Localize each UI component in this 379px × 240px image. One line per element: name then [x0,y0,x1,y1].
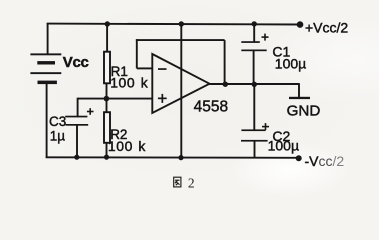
terminal -Vcc/2 [296,155,302,161]
node junction output feedback [223,82,228,87]
wire op-amp supply crossing [180,24,182,157]
svg-text:100k: 100k [108,138,147,154]
wire C1 bottom lead [253,50,255,84]
capacitor C3 [65,108,93,126]
capacitor C2 [241,123,269,141]
ground symbol [289,97,310,99]
node junction bottom supply [178,155,183,160]
battery B1 Vcc [30,53,61,84]
wire C1 top lead [253,24,255,42]
wire C3 bottom lead [76,125,78,157]
terminal +Vcc/2 [297,21,304,28]
svg-text:-Vcc/2: -Vcc/2 [305,153,345,169]
wire feedback left segment [136,39,138,68]
svg-text:4558: 4558 [194,98,228,115]
wire R1 bottom lead [106,83,108,99]
node junction top R1 [105,21,110,26]
wire battery positive lead [47,23,49,54]
node junction R1 R2 input [104,96,110,102]
svg-text:100µ: 100µ [268,137,299,153]
wire battery negative lead [46,84,48,158]
node junction bottom C3 [74,155,79,160]
svg-text:Vcc: Vcc [63,54,89,71]
node junction output C1 C2 [252,82,257,87]
node junction bottom R2 [104,155,109,160]
wire C2 bottom lead [254,141,256,158]
svg-text:C3: C3 [49,114,66,129]
wire R2 bottom lead [106,143,108,158]
caption figure 2 character tu [174,177,181,187]
capacitor C1 [241,34,268,52]
svg-text:1µ: 1µ [50,129,66,144]
wire op-amp output rail [210,83,300,85]
wire feedback right segment [224,40,226,84]
resistor R1 [104,52,110,84]
wire top supply rail [47,23,300,26]
svg-text:100µ: 100µ [275,55,306,71]
wire R2 top lead [106,99,108,113]
wire GND stub [298,83,300,98]
wire R1 top lead [106,24,108,52]
wire C2 top lead [253,84,255,130]
node junction top C1 [252,21,257,26]
node junction top supply [179,21,184,26]
wire bottom rail [46,156,299,159]
op-amp U1 4558 [152,54,209,113]
op-amp inverting symbol [158,68,167,70]
wire C3 top lead [77,98,79,118]
svg-text:+Vcc/2: +Vcc/2 [305,19,348,35]
svg-text:100k: 100k [110,75,149,91]
wire non-inverting input [78,98,153,100]
resistor R2 [104,112,110,143]
svg-text:2: 2 [188,175,195,190]
wire inverting input [137,67,153,69]
wire feedback top segment [136,39,225,41]
svg-text:GND: GND [287,102,321,119]
op-amp non-inverting symbol [158,94,167,103]
